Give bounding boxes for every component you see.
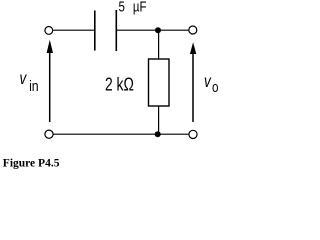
- wire capacitor to node A: [116, 29, 158, 31]
- svg-text:v: v: [204, 72, 212, 91]
- input terminal top (open circle): [45, 27, 53, 35]
- wire resistor to node B: [158, 106, 160, 134]
- label 5 uF: [119, 0, 147, 15]
- svg-text:Figure P4.5: Figure P4.5: [3, 158, 60, 170]
- resistor R1 2kOhm: [149, 59, 170, 106]
- v_in reference arrow (points up): [47, 40, 53, 122]
- label v_in: [20, 69, 39, 94]
- label v_o: [204, 72, 219, 95]
- wire node A to output terminal: [158, 29, 189, 31]
- svg-text:2 kΩ: 2 kΩ: [105, 75, 134, 95]
- output terminal bottom (open circle): [189, 130, 197, 138]
- svg-text:v: v: [20, 69, 28, 88]
- svg-text:5: 5: [119, 0, 125, 15]
- bottom wire left: input terminal to node B: [53, 133, 158, 135]
- svg-text:o: o: [212, 79, 219, 96]
- node B junction dot: [155, 131, 161, 137]
- svg-text:µF: µF: [133, 0, 147, 15]
- input terminal bottom (open circle): [45, 130, 53, 138]
- wire top-left: input terminal to capacitor: [53, 29, 94, 31]
- v_o reference arrow (points up): [190, 42, 196, 122]
- bottom wire right: node B to output terminal: [158, 133, 189, 135]
- wire node A down to resistor: [158, 30, 160, 59]
- svg-text:in: in: [29, 78, 39, 94]
- node A junction dot: [155, 27, 161, 33]
- capacitor C1 5uF: [95, 10, 117, 51]
- output terminal top (open circle): [189, 26, 197, 34]
